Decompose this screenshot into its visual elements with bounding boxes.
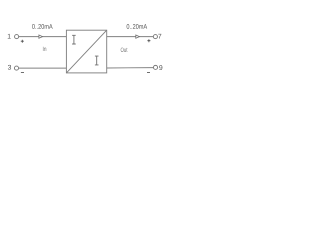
current direction arrow (output) [136, 35, 140, 38]
plus sign at terminal 7 [147, 39, 150, 42]
current symbol I (input side) [72, 35, 76, 44]
minus sign at terminal 9 [147, 72, 150, 74]
label 0..20mA (input) [32, 24, 53, 29]
terminal 9 label [159, 65, 162, 70]
terminal 3 label [8, 65, 11, 70]
label 0..20mA (output) [127, 24, 148, 29]
label Out [121, 48, 128, 52]
terminal 9 circle [153, 65, 157, 69]
plus sign at terminal 1 [21, 40, 24, 43]
diagonal divider of block [66, 30, 106, 73]
wire: output minus (block to terminal 9) [107, 67, 154, 69]
converter block U1 [66, 30, 106, 73]
wire: input plus (terminal 1 to block) [19, 36, 67, 38]
wire: input minus (terminal 3 to block) [19, 67, 67, 69]
terminal 7 label [158, 34, 161, 39]
label In [43, 47, 46, 51]
minus sign at terminal 3 [21, 72, 24, 74]
terminal 7 circle [153, 35, 157, 39]
terminal 1 label [8, 34, 11, 39]
terminal 1 circle [15, 35, 19, 39]
wire: output plus (block to terminal 7) [107, 36, 154, 38]
current symbol I (output side) [95, 56, 99, 65]
terminal 3 circle [14, 66, 18, 70]
current direction arrow (input) [39, 35, 43, 38]
